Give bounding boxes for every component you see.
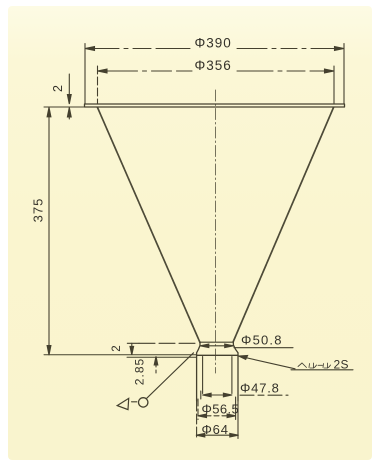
svg-text:Φ356: Φ356 <box>195 58 232 73</box>
dimension Φ50.8 (throat) <box>200 344 293 348</box>
svg-text:2: 2 <box>51 84 65 92</box>
neck inner bore left <box>202 357 204 394</box>
neck outer wall left with flare <box>197 343 200 402</box>
svg-text:Φ50.8: Φ50.8 <box>241 333 283 348</box>
neck flange top line <box>197 354 238 356</box>
center line <box>215 90 217 373</box>
weld symbol circle <box>139 398 148 407</box>
weld symbol leader <box>147 353 194 398</box>
label ヘルール (katakana, drawn as paths) <box>298 363 331 368</box>
label dashed underline <box>240 394 288 396</box>
dimension Φ64 <box>196 401 238 439</box>
dimension 375 (height) <box>44 107 196 355</box>
neck outer wall right with flare <box>233 342 238 402</box>
dimension Φ356 line <box>98 66 335 104</box>
second reference line <box>127 356 196 358</box>
weld symbol dash <box>132 401 137 403</box>
svg-text:Φ390: Φ390 <box>195 36 232 51</box>
dimension 2 (neck, small) <box>127 343 197 355</box>
cone right slant wall <box>233 108 333 342</box>
svg-text:2S: 2S <box>334 358 349 372</box>
svg-text:2.85: 2.85 <box>133 358 147 385</box>
dimension Φ47.8 (bore) <box>201 391 288 399</box>
dimension Φ56.5 <box>198 397 236 420</box>
dimension 2 (top flange thickness) <box>67 74 71 119</box>
neck inner bore right <box>231 357 233 394</box>
ヘ <box>298 363 307 368</box>
dimension Φ390 line <box>85 44 344 104</box>
dimension 2.85 (neck) <box>127 356 196 374</box>
leader ferrule 2S <box>239 356 353 370</box>
svg-text:Φ64: Φ64 <box>202 422 229 437</box>
extension line bottom (to neck flange) <box>44 354 196 356</box>
extension line top (to rim) <box>44 106 84 108</box>
svg-text:2: 2 <box>111 344 123 351</box>
ー <box>318 364 323 366</box>
label underline <box>234 347 293 349</box>
cone left slant wall <box>98 108 201 343</box>
svg-text:Φ47.8: Φ47.8 <box>240 381 280 396</box>
svg-text:375: 375 <box>31 198 46 223</box>
svg-text:Φ56.5: Φ56.5 <box>202 402 240 417</box>
neck throat top lip <box>200 341 233 343</box>
cone top rim (flange, thickness 2) <box>85 104 345 107</box>
ル <box>309 363 317 368</box>
ル <box>323 363 331 368</box>
extension line to throat <box>139 342 197 344</box>
weld symbol triangle <box>117 398 129 409</box>
